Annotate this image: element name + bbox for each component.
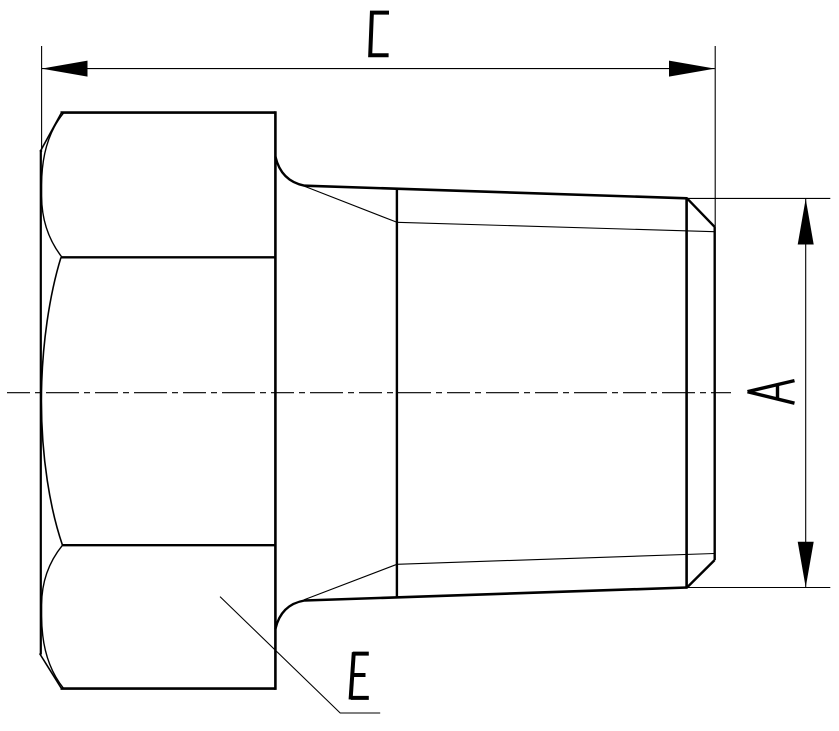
fillet head-to-shank bottom — [275, 601, 304, 630]
thread runout top (thin) — [304, 186, 397, 222]
extension line right (C dimension) — [714, 46, 716, 227]
label A (rotated 90deg CCW) — [748, 381, 795, 404]
hex head right edge — [274, 111, 277, 690]
dimension line A — [805, 199, 807, 587]
hex head bottom face — [61, 687, 276, 690]
label C — [370, 13, 389, 56]
arrowhead C right — [669, 61, 715, 77]
thread boundary vertical — [396, 189, 398, 598]
taper bottom edge — [305, 588, 688, 601]
taper top edge — [305, 186, 688, 199]
hex facet divider lower — [63, 544, 276, 546]
hex chamfer diagonal top-left — [40, 113, 61, 152]
centerline (dash-dot axis) — [7, 392, 731, 394]
hex chamfer diagonal bottom-left — [40, 654, 62, 689]
extension line A bottom — [687, 587, 830, 589]
plug end face — [714, 227, 716, 560]
dimension line C — [42, 68, 715, 70]
extension line A top — [687, 197, 830, 199]
thread minor line bottom (thin) — [397, 554, 714, 565]
hex chamfer arc, bottom facet — [42, 545, 64, 688]
hex head top face — [61, 111, 276, 114]
hex head left face line — [40, 150, 42, 655]
arrowhead C left — [42, 61, 88, 77]
thread minor line top (thin) — [397, 222, 714, 231]
hex chamfer arc, middle facet — [41, 257, 62, 545]
thread runout bottom (thin) — [304, 564, 397, 600]
fillet head-to-shank top — [275, 157, 304, 186]
hex chamfer arc, top facet — [42, 113, 64, 257]
arrowhead A top — [798, 199, 814, 245]
leader line for E — [220, 597, 380, 713]
end chamfer diagonal top — [687, 198, 715, 227]
arrowhead A bottom — [798, 542, 814, 588]
chamfer circle line at plug end — [685, 197, 688, 588]
extension line left (C dimension, coincident with hex face) — [41, 46, 43, 152]
end chamfer diagonal bottom — [687, 560, 715, 588]
label E — [351, 652, 369, 699]
hex facet divider upper — [61, 256, 275, 258]
